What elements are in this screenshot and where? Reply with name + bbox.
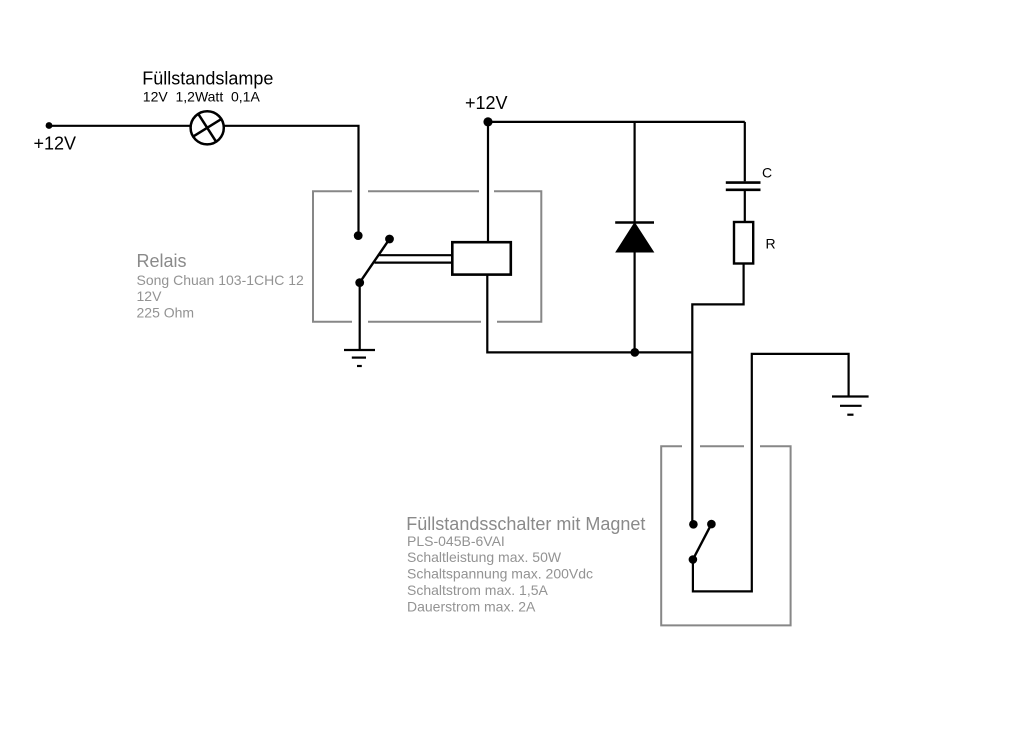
relay coil bbox=[452, 242, 511, 274]
svg-text:PLS-045B-6VAI: PLS-045B-6VAI bbox=[407, 533, 505, 549]
svg-text:R: R bbox=[766, 236, 776, 252]
svg-text:Relais: Relais bbox=[137, 251, 187, 271]
wire resistor to reed switch bbox=[692, 264, 743, 525]
ground symbol (relay switch) bbox=[344, 350, 375, 366]
svg-text:Schaltleistung max. 50W: Schaltleistung max. 50W bbox=[407, 549, 562, 565]
relay switch NO terminal bbox=[385, 235, 394, 244]
relay enclosure box (gray, with wire gaps) bbox=[313, 191, 541, 322]
svg-text:Schaltstrom max. 1,5A: Schaltstrom max. 1,5A bbox=[407, 582, 548, 598]
junction node (diode anode / bottom rail) bbox=[630, 348, 639, 357]
diode D1 bbox=[615, 122, 654, 353]
node +12V (right supply) bbox=[483, 117, 492, 126]
svg-text:Schaltspannung max. 200Vdc: Schaltspannung max. 200Vdc bbox=[407, 566, 593, 582]
reed switch pole terminal bbox=[689, 555, 698, 564]
lamp LA1 Füllstandslampe bbox=[191, 111, 224, 144]
svg-text:Dauerstrom max. 2A: Dauerstrom max. 2A bbox=[407, 598, 536, 614]
relay actuator linkage lines bbox=[380, 254, 453, 256]
svg-text:Füllstandslampe: Füllstandslampe bbox=[142, 69, 273, 89]
wire switch pole to ground bbox=[359, 283, 361, 350]
reed switch lever bbox=[693, 524, 712, 559]
ground symbol (right) bbox=[832, 397, 869, 415]
wire reed switch to right ground bbox=[693, 354, 849, 592]
svg-text:+12V: +12V bbox=[34, 134, 77, 154]
reed switch input terminal bbox=[689, 520, 698, 529]
svg-text:225 Ohm: 225 Ohm bbox=[137, 305, 195, 321]
wire coil bottom to node bbox=[487, 274, 692, 352]
svg-text:Füllstandsschalter mit Magnet: Füllstandsschalter mit Magnet bbox=[406, 514, 645, 534]
svg-text:Song Chuan 103-1CHC 12: Song Chuan 103-1CHC 12 bbox=[137, 272, 305, 288]
relay switch lever bbox=[360, 239, 390, 283]
wire supply to lamp bbox=[49, 125, 191, 127]
reed switch enclosure box (gray, with wire gaps) bbox=[661, 446, 790, 625]
capacitor C bbox=[726, 122, 761, 222]
svg-text:+12V: +12V bbox=[465, 93, 508, 113]
wire lamp to relay switch bbox=[224, 126, 359, 233]
reed switch contact terminal bbox=[707, 520, 716, 529]
svg-text:12V 1,2Watt 0,1A: 12V 1,2Watt 0,1A bbox=[143, 89, 261, 105]
wire +12V top rail bbox=[488, 121, 745, 123]
node +12V (left supply) bbox=[46, 122, 53, 129]
svg-text:C: C bbox=[762, 164, 772, 180]
resistor R bbox=[734, 222, 753, 264]
wire +12V down to coil bbox=[487, 122, 489, 243]
relay switch pole terminal bbox=[355, 278, 364, 287]
svg-text:12V: 12V bbox=[137, 288, 163, 304]
relay switch common terminal bbox=[354, 231, 363, 240]
